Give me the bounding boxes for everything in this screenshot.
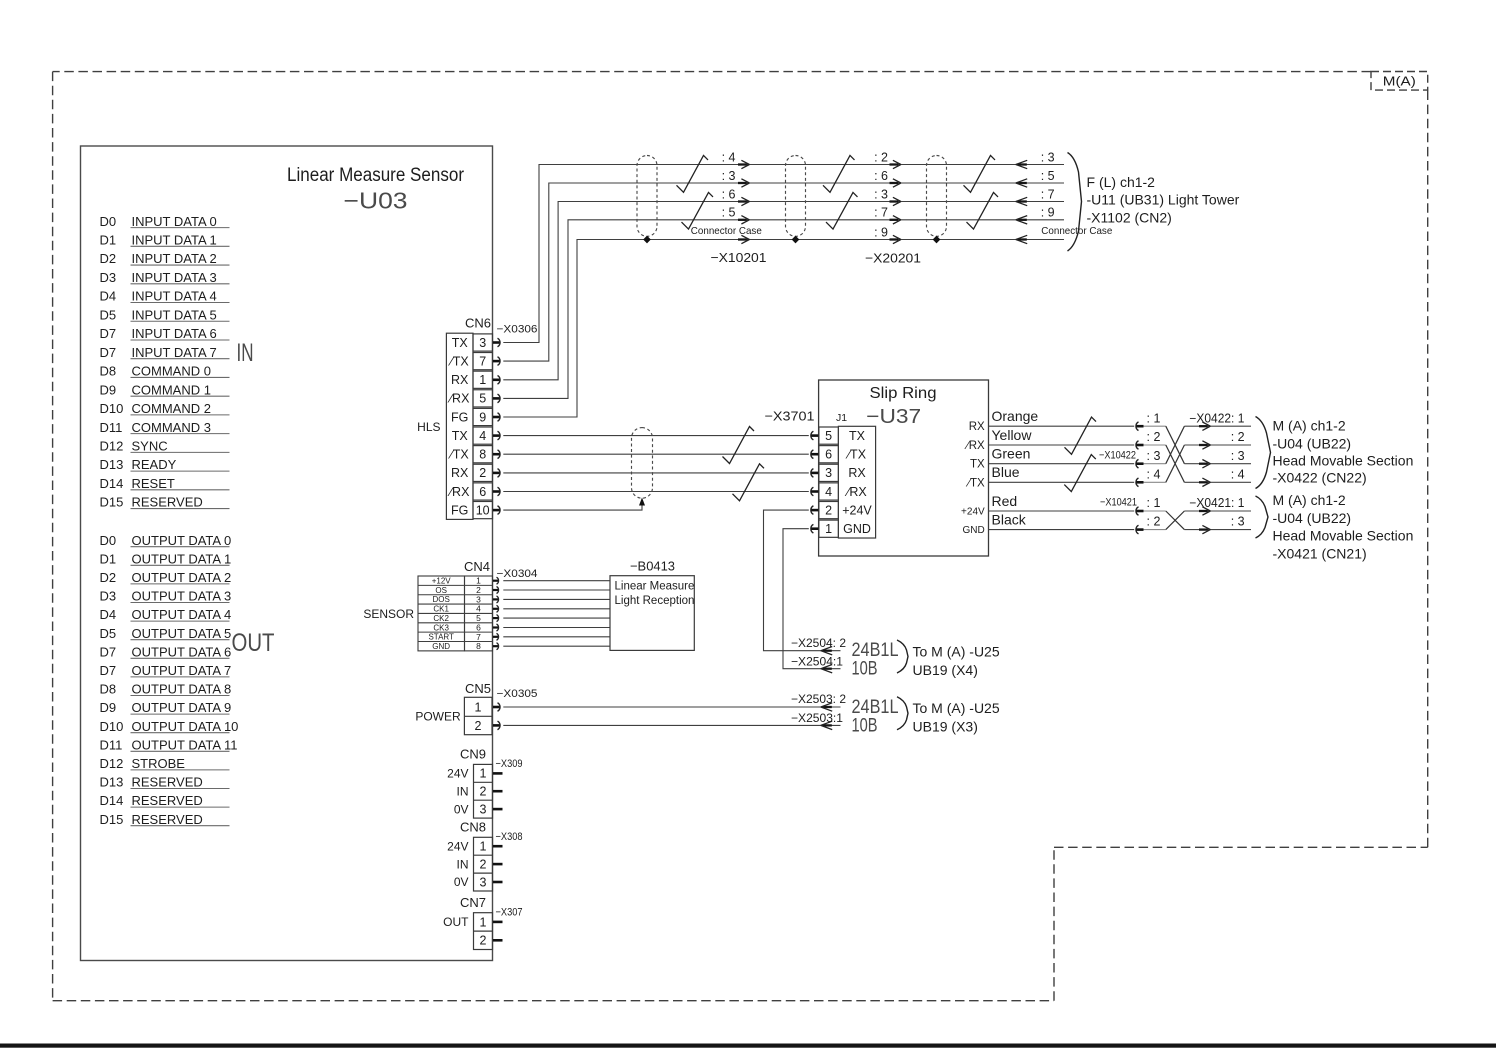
- svg-text:: 5: : 5: [1041, 169, 1055, 183]
- svg-text:D5: D5: [100, 307, 117, 322]
- destination F (L) ch1-2 light tower: [1087, 174, 1240, 226]
- svg-text:CK1: CK1: [433, 605, 449, 614]
- svg-text:IN: IN: [457, 785, 469, 799]
- slip ring output TX wire (Green): [970, 446, 1134, 471]
- twisted pair mark: [733, 464, 765, 501]
- svg-text:: 1: : 1: [1147, 496, 1161, 510]
- CN4 pin socket 6: [493, 624, 499, 631]
- connector -X10201 pin arrow: [738, 179, 749, 187]
- svg-text:OUTPUT DATA 10: OUTPUT DATA 10: [132, 719, 239, 734]
- svg-text:INPUT DATA 2: INPUT DATA 2: [132, 251, 217, 266]
- svg-text:UB19 (X4): UB19 (X4): [913, 662, 978, 678]
- svg-text:FG: FG: [451, 504, 468, 518]
- svg-text:8: 8: [476, 641, 481, 651]
- connector -X10201 pin arrow: [738, 216, 749, 224]
- svg-text:D0: D0: [100, 533, 117, 548]
- svg-text:CN6: CN6: [465, 316, 491, 331]
- wire CN4 to B0413: [503, 580, 610, 582]
- svg-text:CN5: CN5: [465, 681, 491, 696]
- svg-text:-U11 (UB31) Light Tower: -U11 (UB31) Light Tower: [1087, 192, 1240, 208]
- svg-text:6: 6: [825, 448, 832, 462]
- twisted pair mark: [677, 155, 709, 192]
- slip ring U37 box: [819, 380, 989, 556]
- svg-text:OS: OS: [435, 586, 447, 595]
- svg-text:5: 5: [479, 392, 486, 406]
- svg-text:D7: D7: [100, 663, 117, 678]
- twisted pair mark: [1064, 455, 1096, 492]
- svg-text:2: 2: [480, 858, 487, 872]
- svg-text:−X2503:1: −X2503:1: [791, 711, 843, 725]
- twisted pair mark: [1065, 417, 1097, 454]
- connector -X10421 pin socket: [1136, 525, 1166, 534]
- input signal D8 COMMAND 0: [100, 364, 230, 379]
- connector -X10422 pin socket: [1136, 422, 1166, 431]
- svg-text:D13: D13: [100, 457, 124, 472]
- svg-text:−X308: −X308: [496, 831, 523, 843]
- wire CN6 to slip ring J1: [503, 472, 809, 474]
- wire CN4 to B0413: [503, 645, 610, 647]
- CN6 pin socket 5: [493, 394, 500, 403]
- svg-text:OUTPUT DATA 9: OUTPUT DATA 9: [132, 700, 232, 715]
- svg-text:FG: FG: [451, 410, 468, 424]
- wire CN4 to B0413: [503, 608, 610, 610]
- svg-text:+24V: +24V: [961, 507, 985, 518]
- cable shield screen 2: [786, 156, 806, 237]
- svg-text:M (A) ch1-2: M (A) ch1-2: [1273, 418, 1346, 434]
- wire CN6 pin to light tower cable: [503, 202, 1064, 380]
- input signal D1 INPUT DATA 1: [100, 233, 230, 248]
- slip ring output GND wire (Black): [962, 512, 1134, 537]
- connector CN4: [418, 559, 493, 651]
- svg-text:1: 1: [825, 522, 832, 536]
- svg-text:1: 1: [480, 915, 487, 929]
- brace to head movable section: [1256, 417, 1271, 489]
- svg-text:D15: D15: [100, 812, 124, 827]
- svg-text:SYNC: SYNC: [132, 439, 168, 454]
- svg-text:−X10201: −X10201: [711, 250, 767, 265]
- wire CN5 pin1 to X2503: [503, 706, 840, 708]
- svg-text:1: 1: [479, 373, 486, 387]
- output signal D1 OUTPUT DATA 1: [100, 551, 232, 566]
- wire CN4 to B0413: [503, 589, 610, 591]
- output signal D14 RESERVED: [100, 793, 230, 808]
- svg-text:INPUT DATA 1: INPUT DATA 1: [132, 233, 217, 248]
- page bottom edge: [0, 1044, 1496, 1048]
- crossover wires 3-1: [1166, 426, 1185, 464]
- twisted pair mark: [826, 192, 858, 229]
- svg-text:COMMAND 2: COMMAND 2: [132, 401, 211, 416]
- svg-text:∕TX: ∕TX: [845, 448, 867, 462]
- svg-text:D7: D7: [100, 345, 117, 360]
- svg-text:D10: D10: [100, 719, 124, 734]
- svg-text:3: 3: [479, 336, 486, 350]
- svg-text:OUTPUT DATA 7: OUTPUT DATA 7: [132, 663, 232, 678]
- connector CN7: [443, 895, 492, 950]
- CN6 pin socket 8: [493, 450, 500, 459]
- J1 pin socket 2: [811, 506, 819, 515]
- CN6 pin socket 2: [493, 469, 500, 478]
- svg-text:COMMAND 1: COMMAND 1: [132, 382, 211, 397]
- svg-text:∕TX: ∕TX: [448, 448, 470, 462]
- svg-text:To M (A) -U25: To M (A) -U25: [913, 700, 1000, 716]
- svg-text:: 3: : 3: [722, 169, 736, 183]
- connector J1: [819, 412, 876, 538]
- svg-text:9: 9: [479, 410, 486, 424]
- svg-text:J1: J1: [836, 412, 847, 424]
- svg-text:D2: D2: [100, 251, 117, 266]
- wire CN6 to slip ring J1: [503, 435, 809, 437]
- svg-text:Head Movable Section: Head Movable Section: [1273, 528, 1414, 544]
- output signal D2 OUTPUT DATA 2: [100, 570, 232, 585]
- CN9 pin stub 1: [493, 772, 503, 775]
- crossover wires 1-3: [1166, 426, 1185, 464]
- svg-text:D1: D1: [100, 551, 117, 566]
- svg-text:Head Movable Section: Head Movable Section: [1273, 452, 1414, 468]
- output signal D11 OUTPUT DATA 11: [100, 737, 238, 752]
- light tower pin arrow: [1016, 235, 1027, 243]
- svg-text:OUTPUT DATA 2: OUTPUT DATA 2: [132, 570, 232, 585]
- output signal D10 OUTPUT DATA 10: [100, 719, 239, 734]
- output signal D8 OUTPUT DATA 8: [100, 682, 232, 697]
- light tower pin arrow: [1016, 160, 1027, 168]
- CN4 pin socket 7: [493, 633, 499, 640]
- CN7 pin stub 2: [493, 939, 503, 942]
- svg-text:: 5: : 5: [722, 206, 736, 220]
- light tower pin arrow: [1016, 197, 1027, 205]
- connector -X20201 pin arrow: [890, 160, 901, 168]
- CN8 pin stub 2: [493, 863, 503, 866]
- svg-text:5: 5: [825, 429, 832, 443]
- svg-text:D10: D10: [100, 401, 124, 416]
- svg-text:−X0306: −X0306: [497, 323, 538, 335]
- svg-text:D14: D14: [100, 793, 124, 808]
- svg-text:−X2504: 2: −X2504: 2: [791, 636, 846, 650]
- svg-text:2: 2: [479, 466, 486, 480]
- svg-text:IN: IN: [237, 339, 254, 367]
- svg-text:START: START: [428, 633, 454, 642]
- svg-text:−X2503: 2: −X2503: 2: [791, 692, 846, 706]
- CN6 pin socket 4: [493, 431, 500, 440]
- svg-text:RX: RX: [848, 466, 866, 480]
- connector -X10422 pin socket: [1136, 478, 1166, 487]
- light reception unit B0413 box: [610, 576, 694, 651]
- svg-text:COMMAND 3: COMMAND 3: [132, 420, 211, 435]
- twisted pair mark: [823, 155, 855, 192]
- svg-text:∕TX: ∕TX: [965, 477, 985, 489]
- svg-text:-X1102 (CN2): -X1102 (CN2): [1087, 210, 1172, 226]
- svg-text:INPUT DATA 0: INPUT DATA 0: [132, 214, 217, 229]
- connector CN9: [447, 746, 492, 818]
- svg-text:D1: D1: [100, 233, 117, 248]
- svg-text:2: 2: [480, 934, 487, 948]
- output signal D15 RESERVED: [100, 812, 230, 827]
- svg-text:TX: TX: [452, 336, 469, 350]
- J1 pin socket 6: [811, 450, 819, 459]
- svg-text:: 7: : 7: [874, 206, 888, 220]
- svg-text:D12: D12: [100, 756, 124, 771]
- output signal D13 RESERVED: [100, 775, 230, 790]
- svg-text:: 7: : 7: [1041, 187, 1055, 201]
- svg-text:GND: GND: [432, 642, 450, 651]
- svg-text:Blue: Blue: [992, 464, 1020, 480]
- svg-text:OUTPUT DATA 6: OUTPUT DATA 6: [132, 644, 232, 659]
- CN4 pin socket 4: [493, 605, 499, 612]
- input signal D13 READY: [100, 457, 230, 472]
- svg-text:INPUT DATA 4: INPUT DATA 4: [132, 289, 217, 304]
- CN9 pin stub 3: [493, 808, 503, 811]
- input signal D9 COMMAND 1: [100, 382, 230, 397]
- svg-text:: 6: : 6: [722, 187, 736, 201]
- brace: [897, 640, 908, 673]
- output signal D3 OUTPUT DATA 3: [100, 589, 232, 604]
- svg-text:4: 4: [479, 429, 486, 443]
- svg-text:−X0304: −X0304: [497, 568, 538, 580]
- svg-text:D4: D4: [100, 289, 117, 304]
- svg-text:6: 6: [479, 485, 486, 499]
- svg-text:D0: D0: [100, 214, 117, 229]
- svg-text:D3: D3: [100, 270, 117, 285]
- svg-text:1: 1: [480, 767, 487, 781]
- svg-text:CN7: CN7: [460, 895, 486, 910]
- brace to light tower: [1068, 153, 1082, 252]
- wire to head movable section: [1184, 422, 1251, 430]
- svg-text:−X0305: −X0305: [497, 688, 538, 700]
- svg-text:D9: D9: [100, 700, 117, 715]
- output signal D7 OUTPUT DATA 6: [100, 644, 232, 659]
- crossover wires 4-2: [1166, 445, 1185, 482]
- slip ring output ∕TX wire (Blue): [965, 464, 1134, 489]
- destination M (A) ch1-2 head movable section CN22: [1273, 418, 1414, 486]
- svg-text:: 2: : 2: [1147, 430, 1161, 444]
- svg-text:: 6: : 6: [874, 169, 888, 183]
- svg-text:: 2: : 2: [1231, 430, 1245, 444]
- svg-text:∕TX: ∕TX: [448, 355, 470, 369]
- CN7 pin stub 1: [493, 921, 503, 924]
- svg-text:∕RX: ∕RX: [844, 485, 867, 499]
- brace to head movable section: [1256, 496, 1269, 538]
- cable shield screen: [632, 428, 653, 499]
- svg-text:7: 7: [479, 355, 486, 369]
- svg-text:: 3: : 3: [1231, 449, 1245, 463]
- connector CN8: [447, 819, 492, 891]
- connector CN6: [446, 316, 492, 520]
- connector -X20201 pin arrow: [890, 216, 901, 224]
- svg-text:: 2: : 2: [874, 150, 888, 164]
- svg-text:−U37: −U37: [866, 406, 921, 428]
- svg-text:OUTPUT DATA 0: OUTPUT DATA 0: [132, 533, 232, 548]
- connector -X10201 pin arrow: [738, 160, 749, 168]
- CN6 pin socket 10: [493, 506, 500, 515]
- light tower pin arrow: [1016, 216, 1027, 224]
- connector -X10201 pin arrow: [738, 235, 749, 243]
- svg-text:3: 3: [480, 875, 487, 889]
- twisted pair mark: [964, 155, 996, 192]
- J1 pin socket 5: [811, 431, 819, 440]
- connector -X10421 pin socket: [1136, 507, 1166, 516]
- svg-text:: 9: : 9: [1041, 206, 1055, 220]
- wire J1 +24V to X2504: [764, 510, 841, 651]
- destination M (A) ch1-2 head movable section CN21: [1273, 492, 1414, 562]
- svg-text:GND: GND: [962, 525, 984, 536]
- svg-text:2: 2: [480, 785, 487, 799]
- input signal D7 INPUT DATA 7: [100, 345, 230, 360]
- svg-text:SENSOR: SENSOR: [363, 607, 414, 621]
- light tower pin arrow: [1016, 179, 1027, 187]
- svg-text:TX: TX: [452, 429, 469, 443]
- svg-text:−X309: −X309: [496, 758, 523, 770]
- input signal D14 RESET: [100, 476, 230, 491]
- input signal D12 SYNC: [100, 439, 230, 454]
- CN6 pin socket 1: [493, 376, 500, 385]
- J1 pin socket 4: [811, 487, 819, 496]
- svg-text:Red: Red: [992, 493, 1018, 509]
- CN4 pin socket 8: [493, 643, 499, 650]
- svg-text:: 1: : 1: [1147, 411, 1161, 425]
- svg-text:D8: D8: [100, 682, 117, 697]
- CN9 pin stub 2: [493, 790, 503, 793]
- svg-text:8: 8: [479, 448, 486, 462]
- wire to head movable section: [1184, 441, 1251, 449]
- svg-text:HLS: HLS: [417, 420, 440, 434]
- brace: [897, 697, 908, 730]
- svg-text:CN4: CN4: [464, 559, 490, 574]
- svg-text:D12: D12: [100, 439, 124, 454]
- connector -X20201 pin arrow: [890, 179, 901, 187]
- cable shield screen 1: [637, 156, 657, 237]
- svg-text:D15: D15: [100, 495, 124, 510]
- wire CN6 pin to light tower cable: [503, 220, 1064, 399]
- svg-text:1: 1: [480, 840, 487, 854]
- svg-text:−U03: −U03: [344, 188, 408, 214]
- input signal D11 COMMAND 3: [100, 420, 230, 435]
- svg-text:-X0422 (CN22): -X0422 (CN22): [1273, 469, 1367, 485]
- svg-text:∕RX: ∕RX: [447, 392, 470, 406]
- input signal D5 INPUT DATA 5: [100, 307, 230, 322]
- svg-text:D7: D7: [100, 644, 117, 659]
- wire FG10 shield drain: [503, 498, 645, 511]
- CN8 pin stub 3: [493, 881, 503, 884]
- svg-text:∕RX: ∕RX: [447, 485, 470, 499]
- J1 pin socket 1: [811, 524, 819, 533]
- destination To M (A) -U25 UB19 (X3): [913, 700, 1000, 735]
- svg-text:INPUT DATA 5: INPUT DATA 5: [132, 307, 217, 322]
- svg-text:CK2: CK2: [433, 614, 449, 623]
- wire to head movable section: [1184, 460, 1251, 468]
- svg-text:IN: IN: [457, 857, 469, 871]
- svg-text:4: 4: [825, 485, 832, 499]
- svg-text:OUT: OUT: [232, 629, 275, 657]
- svg-text:Slip Ring: Slip Ring: [870, 385, 937, 402]
- svg-text:D11: D11: [100, 420, 123, 435]
- svg-text:OUTPUT DATA 1: OUTPUT DATA 1: [132, 551, 232, 566]
- svg-text:Green: Green: [992, 446, 1031, 462]
- svg-text:D8: D8: [100, 364, 117, 379]
- svg-text:−X3701: −X3701: [765, 408, 815, 423]
- svg-text:READY: READY: [132, 457, 177, 472]
- wire CN6 pin to light tower cable: [503, 165, 1064, 343]
- svg-text:−X0422: 1: −X0422: 1: [1189, 411, 1244, 425]
- wire CN4 to B0413: [503, 598, 610, 600]
- CN5 pin socket 2: [493, 721, 500, 730]
- svg-text:Connector Case: Connector Case: [691, 225, 762, 237]
- svg-text:OUTPUT DATA 3: OUTPUT DATA 3: [132, 589, 232, 604]
- svg-text:D2: D2: [100, 570, 117, 585]
- svg-text:OUTPUT DATA 4: OUTPUT DATA 4: [132, 607, 232, 622]
- connector CN5: [464, 681, 492, 735]
- slip ring output ∕RX wire (Yellow): [964, 427, 1134, 452]
- CN4 pin socket 1: [493, 577, 499, 584]
- svg-text:+24V: +24V: [842, 504, 872, 518]
- svg-text:−X2504:1: −X2504:1: [791, 655, 843, 669]
- svg-text:RX: RX: [451, 373, 469, 387]
- svg-text:RESERVED: RESERVED: [132, 495, 203, 510]
- CN5 pin socket 1: [493, 703, 500, 712]
- CN4 pin socket 5: [493, 615, 499, 622]
- svg-text:−X20201: −X20201: [865, 251, 921, 266]
- svg-text:OUTPUT DATA 8: OUTPUT DATA 8: [132, 682, 232, 697]
- svg-text:24V: 24V: [447, 840, 468, 854]
- slip ring output +24V wire (Red): [961, 493, 1134, 518]
- destination To M (A) -U25 UB19 (X4): [913, 643, 1000, 678]
- input signal D15 RESERVED: [100, 495, 230, 510]
- svg-text:Yellow: Yellow: [992, 427, 1033, 443]
- wire to head movable section: [1184, 525, 1251, 533]
- svg-text:INPUT DATA 7: INPUT DATA 7: [132, 345, 217, 360]
- shield junction dot: [933, 236, 941, 244]
- arrow -X2504:1: [821, 665, 832, 673]
- output signal D5 OUTPUT DATA 5: [100, 626, 232, 641]
- input signal D4 INPUT DATA 4: [100, 289, 230, 304]
- wire CN6 to slip ring J1: [503, 491, 809, 493]
- svg-text:CN9: CN9: [460, 746, 486, 761]
- svg-text:M(A): M(A): [1383, 74, 1416, 89]
- svg-text:D11: D11: [100, 737, 123, 752]
- svg-text:D4: D4: [100, 607, 117, 622]
- svg-text:Light Reception: Light Reception: [615, 595, 695, 607]
- svg-text:D7: D7: [100, 326, 117, 341]
- svg-text:RESERVED: RESERVED: [132, 812, 203, 827]
- svg-text:OUTPUT DATA 11: OUTPUT DATA 11: [132, 737, 238, 752]
- svg-text:RX: RX: [969, 421, 985, 433]
- svg-text:3: 3: [480, 803, 487, 817]
- wire CN4 to B0413: [503, 617, 610, 619]
- svg-text:: 3: : 3: [1041, 150, 1055, 164]
- svg-text:0V: 0V: [454, 802, 469, 816]
- svg-text:D14: D14: [100, 476, 124, 491]
- CN6 pin socket 9: [493, 413, 500, 422]
- svg-text:-U04 (UB22): -U04 (UB22): [1273, 510, 1352, 526]
- svg-text:RESERVED: RESERVED: [132, 793, 203, 808]
- CN6 pin socket 3: [493, 338, 500, 347]
- CN4 pin socket 2: [493, 587, 499, 594]
- wire CN6 pin to light tower cable: [503, 183, 1064, 361]
- linear measure sensor U03 box: [81, 146, 493, 961]
- svg-text:: 3: : 3: [874, 187, 888, 201]
- wire CN5 pin2 to X2503: [503, 724, 840, 726]
- CN4 pin socket 3: [493, 596, 499, 603]
- svg-text:Orange: Orange: [992, 408, 1039, 424]
- svg-text:CN8: CN8: [460, 819, 486, 834]
- connector -X20201 pin arrow: [890, 197, 901, 205]
- connector -X10201 pin arrow: [738, 197, 749, 205]
- svg-text:INPUT DATA 6: INPUT DATA 6: [132, 326, 217, 341]
- svg-text:: 4: : 4: [722, 150, 736, 164]
- output signal D7 OUTPUT DATA 7: [100, 663, 232, 678]
- sheet reference M(A): [1371, 72, 1428, 91]
- CN6 pin socket 6: [493, 487, 500, 496]
- connector -X20201 pin arrow: [890, 235, 901, 243]
- svg-text:3: 3: [825, 466, 832, 480]
